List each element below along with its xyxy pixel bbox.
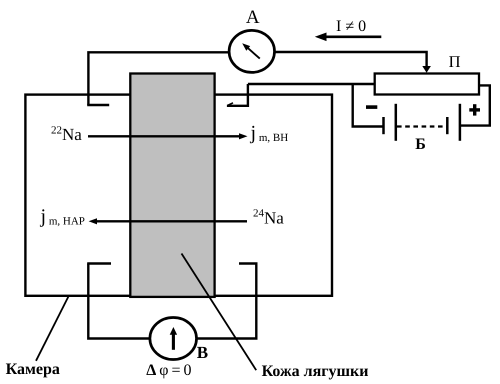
label Б bbox=[415, 136, 426, 153]
chamber (Камера) outer rectangle bbox=[25, 95, 332, 296]
svg-text:Б: Б bbox=[415, 136, 426, 153]
label j m,ВН bbox=[250, 122, 289, 144]
svg-text:I ≠ 0: I ≠ 0 bbox=[336, 18, 366, 35]
ammeter A (circle) bbox=[229, 30, 274, 72]
label П bbox=[449, 52, 461, 71]
electrode plate top-left (tick) bbox=[87, 104, 109, 106]
battery dashed middle (omitted cells) bbox=[397, 125, 446, 127]
svg-text:А: А bbox=[246, 7, 260, 28]
wire: branch down to battery minus bbox=[353, 84, 383, 127]
label Кожа лягушки bbox=[262, 363, 369, 380]
wire: right electrode to potentiometer left end bbox=[248, 83, 375, 85]
battery plate long (plus) bbox=[459, 104, 462, 141]
wire: left electrode up and across to ammeter bbox=[88, 52, 229, 105]
svg-text:В: В bbox=[197, 343, 208, 362]
ammeter needle (arrow up-left) bbox=[242, 43, 260, 58]
battery plate short (right) bbox=[446, 117, 449, 134]
wire: battery plus up to potentiometer right end bbox=[460, 85, 490, 125]
svg-text:Кожа лягушки: Кожа лягушки bbox=[262, 363, 369, 380]
label Камера bbox=[6, 361, 60, 378]
svg-text:П: П bbox=[449, 52, 461, 71]
plus sign bbox=[469, 104, 480, 115]
current direction arrow (left) bbox=[315, 33, 382, 42]
electrode plate bottom-left (tick) bbox=[87, 262, 111, 264]
membrane (frog skin) gray rectangle bbox=[130, 74, 214, 297]
battery Б: plate short (minus) bbox=[382, 117, 385, 134]
label Δφ = 0 bbox=[146, 362, 191, 379]
label j m,НАР bbox=[40, 206, 85, 228]
label 22Na bbox=[51, 124, 82, 144]
arrow 22Na flux to the right bbox=[88, 133, 248, 139]
wire: bottom-left electrode down to voltmeter bbox=[88, 264, 150, 339]
battery plate long bbox=[395, 104, 398, 141]
leader line to Кожа лягушки bbox=[182, 254, 257, 371]
voltmeter needle (arrow up) bbox=[170, 327, 177, 350]
arrow 24Na flux to the left bbox=[89, 218, 247, 224]
label I ≠ 0 bbox=[336, 18, 366, 35]
wire: voltmeter right up to bottom-right electrode bbox=[197, 264, 257, 339]
electrode top-right (wire down + tick left with barb) bbox=[227, 84, 248, 106]
electrode plate bottom-right (tick) bbox=[239, 262, 258, 264]
label B bbox=[197, 343, 208, 362]
wire: ammeter right to potentiometer wiper bbox=[275, 52, 431, 73]
label 24Na bbox=[253, 208, 284, 228]
leader line to Камера bbox=[36, 296, 69, 361]
minus sign bbox=[366, 105, 377, 109]
svg-text:Камера: Камера bbox=[6, 361, 60, 378]
label A bbox=[246, 7, 260, 28]
svg-text:Δ φ = 0: Δ φ = 0 bbox=[146, 362, 191, 379]
voltmeter B (circle) bbox=[150, 318, 197, 360]
potentiometer П rectangle bbox=[375, 74, 479, 95]
